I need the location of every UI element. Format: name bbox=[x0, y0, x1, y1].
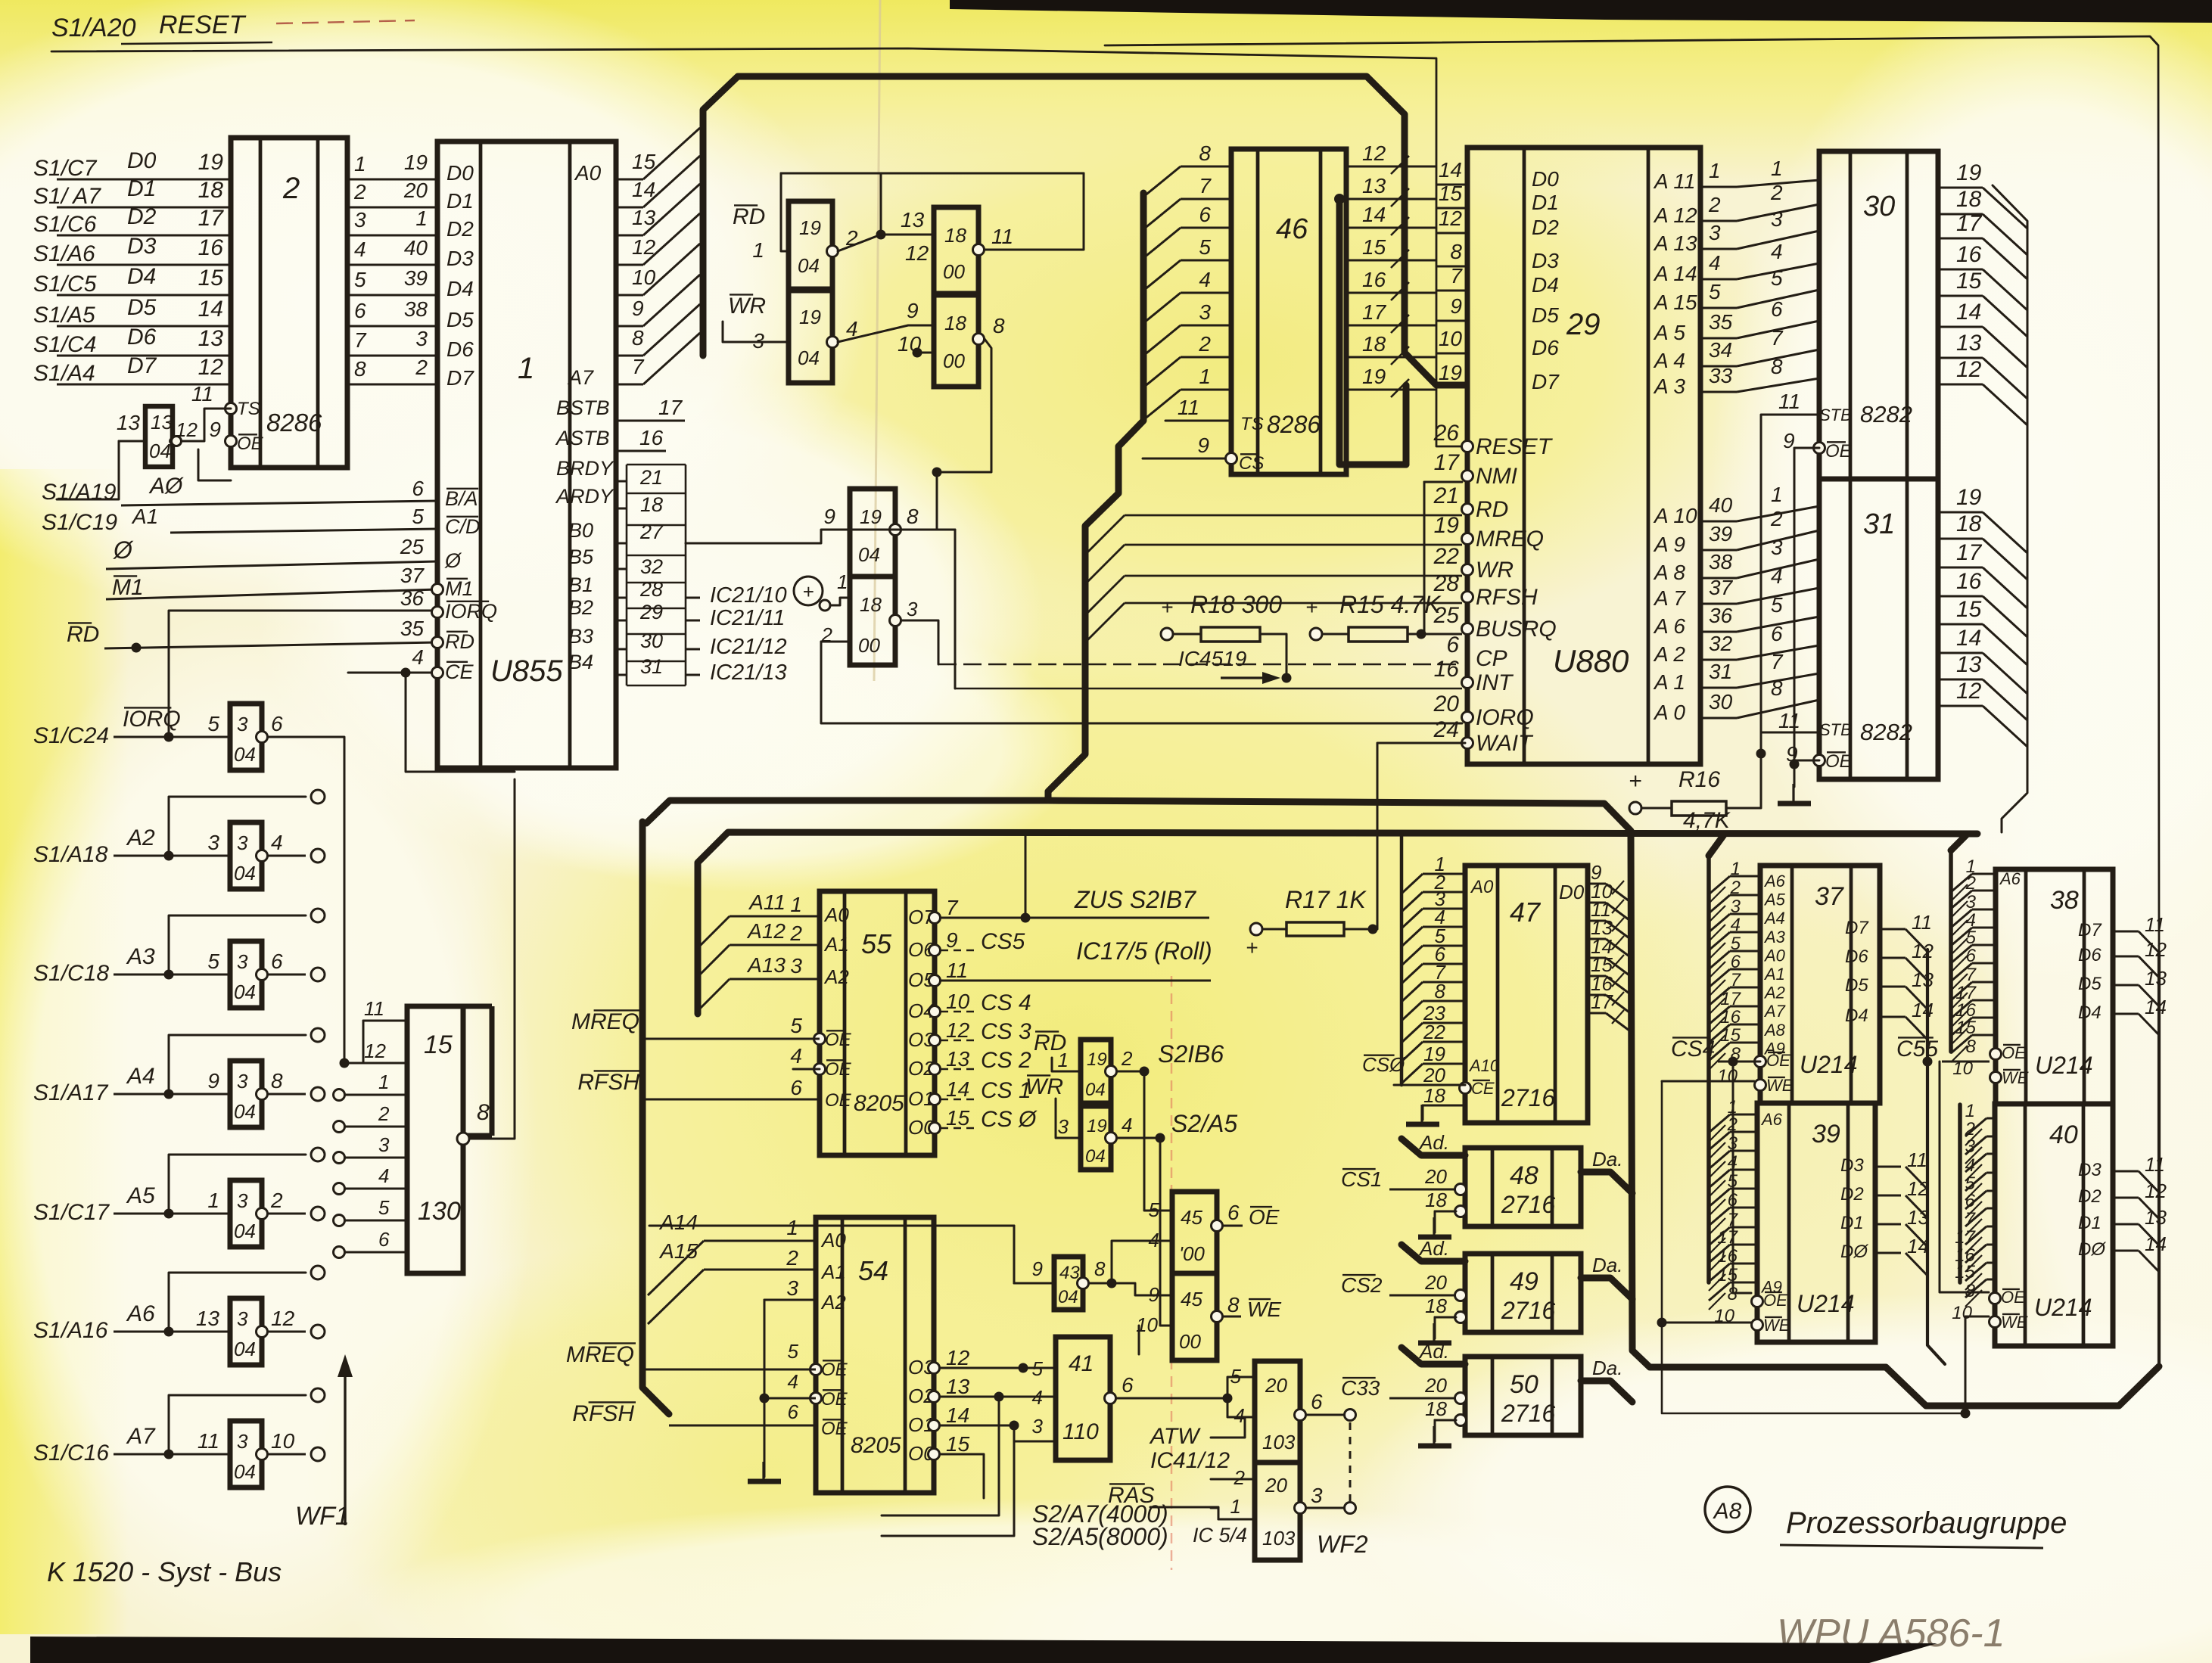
svg-text:14: 14 bbox=[1956, 300, 1981, 325]
svg-text:IC41/12: IC41/12 bbox=[1150, 1448, 1230, 1473]
svg-text:13: 13 bbox=[1956, 652, 1982, 677]
svg-text:Prozessorbaugruppe: Prozessorbaugruppe bbox=[1786, 1506, 2067, 1540]
svg-text:13: 13 bbox=[632, 206, 656, 229]
svg-text:OE: OE bbox=[1249, 1205, 1280, 1229]
svg-text:A 2: A 2 bbox=[1653, 642, 1685, 666]
svg-text:D2: D2 bbox=[127, 204, 157, 229]
svg-text:14: 14 bbox=[1912, 999, 1934, 1021]
svg-text:3: 3 bbox=[207, 831, 219, 854]
svg-text:3: 3 bbox=[786, 1276, 798, 1300]
bus data bus wrap around RAM bottom bbox=[1631, 834, 2159, 1406]
bus address bus loop from U855 to U880 bbox=[703, 76, 1465, 385]
svg-text:21: 21 bbox=[1433, 483, 1459, 508]
svg-text:A0: A0 bbox=[1763, 946, 1786, 965]
svg-text:D4: D4 bbox=[127, 264, 156, 289]
svg-text:2: 2 bbox=[1198, 332, 1211, 356]
svg-text:13: 13 bbox=[1912, 968, 1934, 991]
RAM IC37 U214 bbox=[1709, 859, 1934, 1103]
svg-text:4: 4 bbox=[378, 1164, 389, 1187]
IC41 gate 110 bbox=[1032, 1337, 1233, 1460]
svg-text:4: 4 bbox=[1771, 564, 1783, 588]
svg-text:15: 15 bbox=[1362, 235, 1386, 259]
svg-text:3: 3 bbox=[1058, 1115, 1069, 1138]
svg-text:1: 1 bbox=[1230, 1495, 1241, 1518]
svg-text:4: 4 bbox=[354, 238, 366, 261]
svg-text:S1/A18: S1/A18 bbox=[33, 842, 108, 867]
svg-text:39: 39 bbox=[1812, 1120, 1840, 1149]
gate inverter 3(04) A7 from S1/C16 bbox=[33, 1388, 325, 1487]
net CS4 to IC37 IC39 OE bbox=[1671, 1037, 1760, 1293]
svg-text:6: 6 bbox=[1771, 297, 1783, 321]
svg-text:3: 3 bbox=[1771, 536, 1783, 559]
svg-text:1: 1 bbox=[1731, 859, 1741, 879]
svg-text:5: 5 bbox=[378, 1196, 390, 1219]
svg-text:C33: C33 bbox=[1341, 1376, 1380, 1400]
svg-text:5: 5 bbox=[412, 505, 424, 528]
svg-text:21: 21 bbox=[639, 466, 663, 489]
svg-text:04: 04 bbox=[234, 743, 256, 766]
svg-text:5: 5 bbox=[1199, 235, 1211, 259]
svg-text:19: 19 bbox=[1439, 361, 1462, 384]
svg-text:NMI: NMI bbox=[1476, 464, 1517, 489]
svg-text:WR: WR bbox=[1025, 1074, 1063, 1099]
svg-text:15: 15 bbox=[1717, 1265, 1738, 1285]
svg-text:RAS: RAS bbox=[1108, 1483, 1155, 1508]
svg-text:D1: D1 bbox=[1840, 1213, 1864, 1233]
svg-text:40: 40 bbox=[404, 236, 428, 260]
svg-text:18: 18 bbox=[1425, 1189, 1447, 1211]
svg-text:7: 7 bbox=[1771, 650, 1784, 673]
svg-text:1: 1 bbox=[1771, 483, 1783, 506]
svg-text:7: 7 bbox=[1731, 970, 1742, 990]
svg-text:12: 12 bbox=[946, 1018, 970, 1042]
svg-text:S1/ A7: S1/ A7 bbox=[33, 184, 101, 209]
label A8 Prozessorbaugruppe bbox=[1705, 1487, 2067, 1548]
svg-text:9: 9 bbox=[1032, 1257, 1043, 1280]
svg-text:WF2: WF2 bbox=[1317, 1531, 1368, 1558]
svg-text:04: 04 bbox=[234, 981, 256, 1003]
svg-text:5: 5 bbox=[788, 1340, 799, 1363]
svg-text:9: 9 bbox=[209, 418, 221, 441]
svg-text:8205: 8205 bbox=[851, 1433, 901, 1458]
resistor R18 300 and IC4519 arrow bbox=[1161, 591, 1292, 684]
svg-text:D7: D7 bbox=[2078, 920, 2102, 940]
svg-text:8: 8 bbox=[1771, 355, 1783, 378]
svg-text:2: 2 bbox=[1121, 1047, 1133, 1070]
svg-text:RD: RD bbox=[67, 622, 99, 647]
svg-text:4: 4 bbox=[1965, 1155, 1975, 1176]
svg-text:6: 6 bbox=[271, 950, 283, 973]
svg-text:12: 12 bbox=[1956, 357, 1982, 382]
svg-text:6: 6 bbox=[378, 1228, 390, 1251]
svg-text:04: 04 bbox=[1058, 1287, 1078, 1307]
svg-text:17: 17 bbox=[1956, 211, 1983, 236]
svg-text:8: 8 bbox=[1450, 240, 1462, 263]
svg-text:A1: A1 bbox=[823, 933, 849, 956]
svg-text:A 4: A 4 bbox=[1653, 349, 1685, 372]
svg-text:A 11: A 11 bbox=[1653, 169, 1695, 193]
svg-text:40: 40 bbox=[1709, 493, 1733, 517]
svg-text:8: 8 bbox=[993, 314, 1005, 337]
svg-text:2: 2 bbox=[786, 1246, 798, 1270]
svg-text:55: 55 bbox=[861, 928, 892, 959]
svg-text:3: 3 bbox=[907, 598, 918, 620]
svg-text:00: 00 bbox=[943, 260, 965, 283]
svg-text:A2: A2 bbox=[823, 965, 849, 988]
svg-text:2: 2 bbox=[1234, 1466, 1246, 1489]
svg-text:16: 16 bbox=[1720, 1007, 1741, 1027]
svg-text:15: 15 bbox=[1720, 1025, 1741, 1046]
svg-text:27: 27 bbox=[639, 521, 664, 543]
svg-text:A5: A5 bbox=[1763, 891, 1786, 909]
svg-text:CS 3: CS 3 bbox=[981, 1019, 1031, 1044]
svg-text:00: 00 bbox=[858, 634, 880, 657]
svg-text:12: 12 bbox=[632, 235, 656, 259]
arrow WF1 bbox=[295, 1354, 353, 1531]
svg-text:D0: D0 bbox=[446, 161, 474, 185]
svg-text:CS 1: CS 1 bbox=[981, 1078, 1031, 1103]
svg-text:WE: WE bbox=[2002, 1068, 2029, 1087]
svg-text:WR: WR bbox=[728, 294, 766, 319]
gate inverter 3(04) A4 from S1/A17 bbox=[33, 1028, 325, 1127]
svg-text:Ø: Ø bbox=[113, 536, 134, 564]
svg-text:18: 18 bbox=[944, 312, 966, 334]
svg-text:10: 10 bbox=[1439, 327, 1463, 350]
svg-text:17: 17 bbox=[198, 206, 225, 231]
svg-text:1: 1 bbox=[207, 1189, 219, 1212]
svg-text:35: 35 bbox=[1709, 310, 1733, 334]
svg-text:MREQ: MREQ bbox=[566, 1342, 634, 1367]
svg-text:INT: INT bbox=[1476, 670, 1514, 695]
svg-text:A7: A7 bbox=[126, 1424, 156, 1449]
svg-text:8: 8 bbox=[1435, 980, 1446, 1002]
svg-text:OE: OE bbox=[825, 1090, 852, 1111]
svg-text:12: 12 bbox=[1362, 141, 1386, 165]
svg-text:17: 17 bbox=[1956, 540, 1983, 565]
svg-text:3: 3 bbox=[1709, 221, 1721, 244]
svg-text:15: 15 bbox=[198, 266, 224, 291]
NAND gates 45(00) OE WE bbox=[1112, 1192, 1281, 1360]
svg-text:OE: OE bbox=[2002, 1043, 2026, 1062]
svg-text:A 1: A 1 bbox=[1653, 670, 1685, 694]
svg-text:WE: WE bbox=[2001, 1313, 2028, 1332]
svg-text:MREQ: MREQ bbox=[1476, 527, 1544, 552]
svg-text:15: 15 bbox=[1956, 269, 1982, 294]
IC1 U855 PIO bbox=[432, 141, 617, 768]
svg-text:WE: WE bbox=[1247, 1298, 1281, 1321]
svg-text:1: 1 bbox=[752, 238, 764, 262]
svg-text:3: 3 bbox=[354, 208, 366, 232]
svg-text:S2IB6: S2IB6 bbox=[1158, 1040, 1224, 1068]
svg-text:04: 04 bbox=[798, 254, 820, 277]
svg-text:D7: D7 bbox=[446, 366, 474, 390]
svg-text:35: 35 bbox=[400, 617, 425, 640]
svg-text:19: 19 bbox=[860, 505, 882, 528]
wires control RD MREQ WR RFSH CP INT IORQ to U880 bbox=[821, 482, 1462, 723]
svg-text:11: 11 bbox=[1907, 1149, 1927, 1171]
svg-text:19: 19 bbox=[1087, 1049, 1107, 1070]
svg-text:1: 1 bbox=[1965, 1101, 1975, 1121]
svg-text:A6: A6 bbox=[1999, 869, 2021, 888]
svg-text:D1: D1 bbox=[446, 189, 474, 213]
svg-text:D0: D0 bbox=[1532, 167, 1559, 191]
svg-text:20: 20 bbox=[1424, 1374, 1447, 1397]
svg-text:13: 13 bbox=[1956, 331, 1982, 356]
svg-text:CS2: CS2 bbox=[1341, 1273, 1383, 1297]
svg-text:IC4519: IC4519 bbox=[1178, 647, 1246, 670]
svg-text:15: 15 bbox=[1955, 1018, 1976, 1038]
gate inverter 3(04) A6 from S1/A16 bbox=[33, 1266, 325, 1365]
svg-text:U855: U855 bbox=[490, 654, 563, 688]
svg-text:A 5: A 5 bbox=[1653, 321, 1685, 344]
svg-text:A5: A5 bbox=[126, 1183, 155, 1208]
svg-text:14: 14 bbox=[1362, 203, 1386, 226]
svg-text:15: 15 bbox=[1956, 597, 1982, 622]
svg-text:DØ: DØ bbox=[2078, 1239, 2106, 1260]
svg-text:5: 5 bbox=[1966, 928, 1977, 948]
svg-text:A0: A0 bbox=[574, 161, 602, 185]
svg-text:14: 14 bbox=[2145, 1232, 2167, 1255]
gate inverter 3(04) IORQ from S1/C24 bbox=[33, 704, 283, 770]
IC54 8205 decoder bbox=[566, 1211, 970, 1493]
svg-text:IORQ: IORQ bbox=[445, 600, 497, 623]
wire IORQ and CE risers to U855 bbox=[169, 611, 515, 772]
svg-text:2: 2 bbox=[353, 180, 366, 204]
resistor R16 4.7K bbox=[1629, 767, 1761, 833]
bus EPROM 47 address fan riser bbox=[1400, 834, 1404, 1085]
svg-text:A7: A7 bbox=[567, 366, 594, 389]
svg-text:04: 04 bbox=[1085, 1080, 1106, 1100]
svg-text:45: 45 bbox=[1181, 1288, 1202, 1310]
svg-text:5: 5 bbox=[1731, 934, 1741, 954]
svg-text:12: 12 bbox=[1956, 679, 1982, 704]
svg-text:D5: D5 bbox=[127, 295, 157, 320]
svg-text:IORQ: IORQ bbox=[123, 707, 181, 732]
svg-text:12: 12 bbox=[1912, 940, 1934, 962]
svg-text:5: 5 bbox=[790, 1014, 802, 1037]
svg-text:B0: B0 bbox=[568, 519, 593, 542]
svg-text:S1/C17: S1/C17 bbox=[33, 1200, 110, 1225]
svg-text:A7: A7 bbox=[1763, 1002, 1786, 1021]
svg-text:16: 16 bbox=[639, 426, 664, 449]
svg-text:D0: D0 bbox=[127, 148, 157, 173]
IC29 U880 CPU bbox=[1433, 148, 1737, 764]
svg-text:5: 5 bbox=[1149, 1198, 1160, 1221]
svg-text:WR: WR bbox=[1476, 558, 1514, 583]
svg-text:STB: STB bbox=[1819, 406, 1852, 424]
IC46 8286 data transceiver with bus fans bbox=[1143, 141, 1436, 474]
svg-text:04: 04 bbox=[234, 1220, 256, 1242]
wire IORQ inverted to IC15 pin 12 bbox=[268, 737, 363, 1068]
svg-text:04: 04 bbox=[234, 1460, 256, 1483]
svg-text:13: 13 bbox=[946, 1047, 970, 1071]
svg-text:CS 2: CS 2 bbox=[981, 1048, 1031, 1073]
svg-text:A4: A4 bbox=[1763, 909, 1785, 928]
svg-text:11: 11 bbox=[1778, 390, 1800, 413]
svg-text:S2/A5: S2/A5 bbox=[1171, 1110, 1237, 1137]
svg-text:8: 8 bbox=[907, 505, 919, 528]
svg-text:3: 3 bbox=[1966, 892, 1977, 912]
label K1520 System Bus bbox=[47, 1556, 282, 1587]
svg-text:1: 1 bbox=[1199, 365, 1211, 388]
svg-text:2: 2 bbox=[270, 1189, 283, 1212]
svg-text:47: 47 bbox=[1510, 897, 1542, 928]
svg-text:13: 13 bbox=[117, 411, 141, 434]
svg-text:D1: D1 bbox=[2078, 1213, 2102, 1233]
svg-text:9: 9 bbox=[823, 505, 835, 528]
svg-text:DØ: DØ bbox=[1840, 1242, 1868, 1262]
svg-text:3: 3 bbox=[1032, 1415, 1044, 1438]
svg-text:A3: A3 bbox=[1763, 928, 1786, 947]
svg-text:CSØ: CSØ bbox=[1362, 1053, 1406, 1076]
svg-text:S1/A19: S1/A19 bbox=[42, 480, 117, 505]
svg-text:S1/A6: S1/A6 bbox=[33, 241, 95, 266]
svg-text:1: 1 bbox=[415, 207, 428, 230]
svg-text:26: 26 bbox=[1433, 421, 1460, 446]
svg-text:D2: D2 bbox=[2078, 1186, 2102, 1207]
svg-text:A6: A6 bbox=[126, 1301, 155, 1326]
svg-text:D5: D5 bbox=[1532, 303, 1559, 327]
svg-text:7: 7 bbox=[1966, 965, 1977, 985]
svg-text:20: 20 bbox=[1424, 1271, 1447, 1294]
svg-text:13: 13 bbox=[151, 411, 173, 434]
svg-text:A8: A8 bbox=[1713, 1499, 1742, 1524]
svg-text:20: 20 bbox=[1433, 692, 1460, 716]
svg-text:IC21/13: IC21/13 bbox=[710, 661, 787, 685]
svg-text:9: 9 bbox=[207, 1069, 219, 1093]
gate inverter 3(04) A2 from S1/A18 bbox=[33, 790, 325, 889]
svg-text:2716: 2716 bbox=[1501, 1084, 1555, 1111]
svg-text:7: 7 bbox=[946, 896, 959, 919]
svg-text:13: 13 bbox=[946, 1375, 970, 1398]
svg-text:10: 10 bbox=[1717, 1066, 1738, 1086]
EPROM IC47 2716 bbox=[1362, 853, 1632, 1124]
svg-text:8: 8 bbox=[477, 1100, 490, 1125]
svg-text:M1: M1 bbox=[445, 577, 474, 600]
svg-text:S1/A4: S1/A4 bbox=[33, 361, 95, 386]
svg-text:8286: 8286 bbox=[1267, 411, 1321, 438]
svg-text:A6: A6 bbox=[1763, 872, 1786, 891]
svg-text:17: 17 bbox=[658, 396, 683, 419]
svg-text:WE: WE bbox=[1763, 1316, 1790, 1335]
svg-text:A 10: A 10 bbox=[1653, 504, 1697, 527]
svg-text:11: 11 bbox=[364, 997, 384, 1020]
svg-text:16: 16 bbox=[1956, 242, 1982, 267]
svg-text:5: 5 bbox=[207, 950, 219, 973]
svg-text:IC 5/4: IC 5/4 bbox=[1193, 1524, 1247, 1546]
inverter 43(04) bbox=[649, 1226, 1172, 1310]
svg-text:BUSRQ: BUSRQ bbox=[1476, 617, 1557, 642]
svg-text:D3: D3 bbox=[2078, 1160, 2102, 1180]
svg-text:2: 2 bbox=[1730, 878, 1741, 898]
svg-text:4: 4 bbox=[1149, 1229, 1159, 1251]
svg-text:17: 17 bbox=[1955, 1227, 1976, 1248]
svg-text:37: 37 bbox=[1815, 882, 1844, 911]
svg-text:IC21/11: IC21/11 bbox=[710, 606, 785, 630]
svg-text:24: 24 bbox=[1433, 717, 1459, 742]
svg-text:4: 4 bbox=[1771, 240, 1783, 263]
svg-text:D3: D3 bbox=[1840, 1155, 1864, 1176]
svg-text:R16: R16 bbox=[1678, 767, 1720, 792]
svg-text:4: 4 bbox=[790, 1044, 802, 1068]
svg-text:14: 14 bbox=[198, 297, 223, 322]
svg-text:103: 103 bbox=[1262, 1431, 1296, 1453]
svg-text:D4: D4 bbox=[2078, 1002, 2102, 1023]
svg-text:18: 18 bbox=[944, 224, 966, 247]
svg-text:17: 17 bbox=[1362, 300, 1387, 324]
svg-text:34: 34 bbox=[1709, 338, 1732, 362]
gate inverter 3(04) A5 from S1/C17 bbox=[33, 1148, 325, 1247]
bus D-bus wrap between IC46 and U880 bbox=[1334, 194, 1406, 465]
svg-text:04: 04 bbox=[858, 543, 880, 566]
svg-text:8205: 8205 bbox=[854, 1091, 904, 1116]
svg-text:8286: 8286 bbox=[266, 409, 322, 437]
svg-text:10: 10 bbox=[632, 266, 656, 289]
svg-text:S1/A16: S1/A16 bbox=[33, 1318, 108, 1343]
svg-text:6: 6 bbox=[1199, 203, 1211, 226]
IC30 8282 address latch high bbox=[1770, 151, 2027, 479]
svg-text:OE: OE bbox=[825, 1030, 852, 1050]
svg-text:15: 15 bbox=[946, 1432, 970, 1456]
svg-text:12: 12 bbox=[905, 241, 929, 265]
svg-text:A 0: A 0 bbox=[1653, 701, 1685, 724]
svg-text:11: 11 bbox=[946, 959, 968, 982]
svg-text:CS5: CS5 bbox=[981, 929, 1025, 954]
svg-text:RD: RD bbox=[1476, 497, 1508, 522]
svg-text:D5: D5 bbox=[2078, 974, 2102, 994]
svg-text:32: 32 bbox=[1709, 632, 1733, 655]
svg-text:19: 19 bbox=[1956, 160, 1982, 185]
svg-text:49: 49 bbox=[1510, 1267, 1538, 1296]
svg-text:OE: OE bbox=[821, 1419, 848, 1439]
svg-text:54: 54 bbox=[858, 1255, 888, 1286]
svg-text:15: 15 bbox=[946, 1106, 970, 1130]
svg-text:D6: D6 bbox=[127, 325, 157, 350]
svg-text:30: 30 bbox=[1863, 191, 1895, 222]
svg-text:B2: B2 bbox=[568, 596, 593, 619]
svg-text:11: 11 bbox=[1912, 911, 1932, 934]
svg-text:A0: A0 bbox=[1470, 877, 1494, 897]
svg-text:8: 8 bbox=[1771, 676, 1783, 700]
svg-text:7: 7 bbox=[632, 355, 645, 378]
svg-text:18: 18 bbox=[1423, 1084, 1445, 1107]
EPROM IC50 2716 bbox=[1341, 1340, 1632, 1446]
IC15 gate 130 with inputs bbox=[334, 779, 515, 1273]
svg-text:A8: A8 bbox=[1763, 1021, 1786, 1040]
svg-text:3: 3 bbox=[1771, 207, 1783, 231]
svg-text:4: 4 bbox=[788, 1370, 798, 1393]
svg-text:D1: D1 bbox=[127, 176, 156, 201]
svg-text:D2: D2 bbox=[1532, 216, 1559, 239]
svg-text:3: 3 bbox=[415, 327, 428, 350]
svg-text:D3: D3 bbox=[1532, 249, 1559, 272]
svg-text:04: 04 bbox=[149, 440, 171, 462]
IC55 8205 decoder bbox=[571, 891, 1211, 1155]
svg-text:STB: STB bbox=[1819, 720, 1852, 739]
svg-text:110: 110 bbox=[1062, 1419, 1099, 1444]
svg-text:1: 1 bbox=[518, 352, 534, 385]
svg-text:12: 12 bbox=[198, 355, 224, 380]
svg-text:S1/A20: S1/A20 bbox=[51, 14, 136, 42]
svg-text:D6: D6 bbox=[1845, 947, 1868, 967]
spacer bbox=[0, 0, 1, 1]
svg-text:3: 3 bbox=[378, 1133, 390, 1156]
svg-text:Ø: Ø bbox=[444, 549, 462, 572]
IC31 8282 address latch low bbox=[1770, 479, 2027, 779]
svg-text:D2: D2 bbox=[1840, 1184, 1864, 1205]
svg-text:4: 4 bbox=[271, 831, 283, 854]
svg-text:5: 5 bbox=[1032, 1357, 1044, 1380]
